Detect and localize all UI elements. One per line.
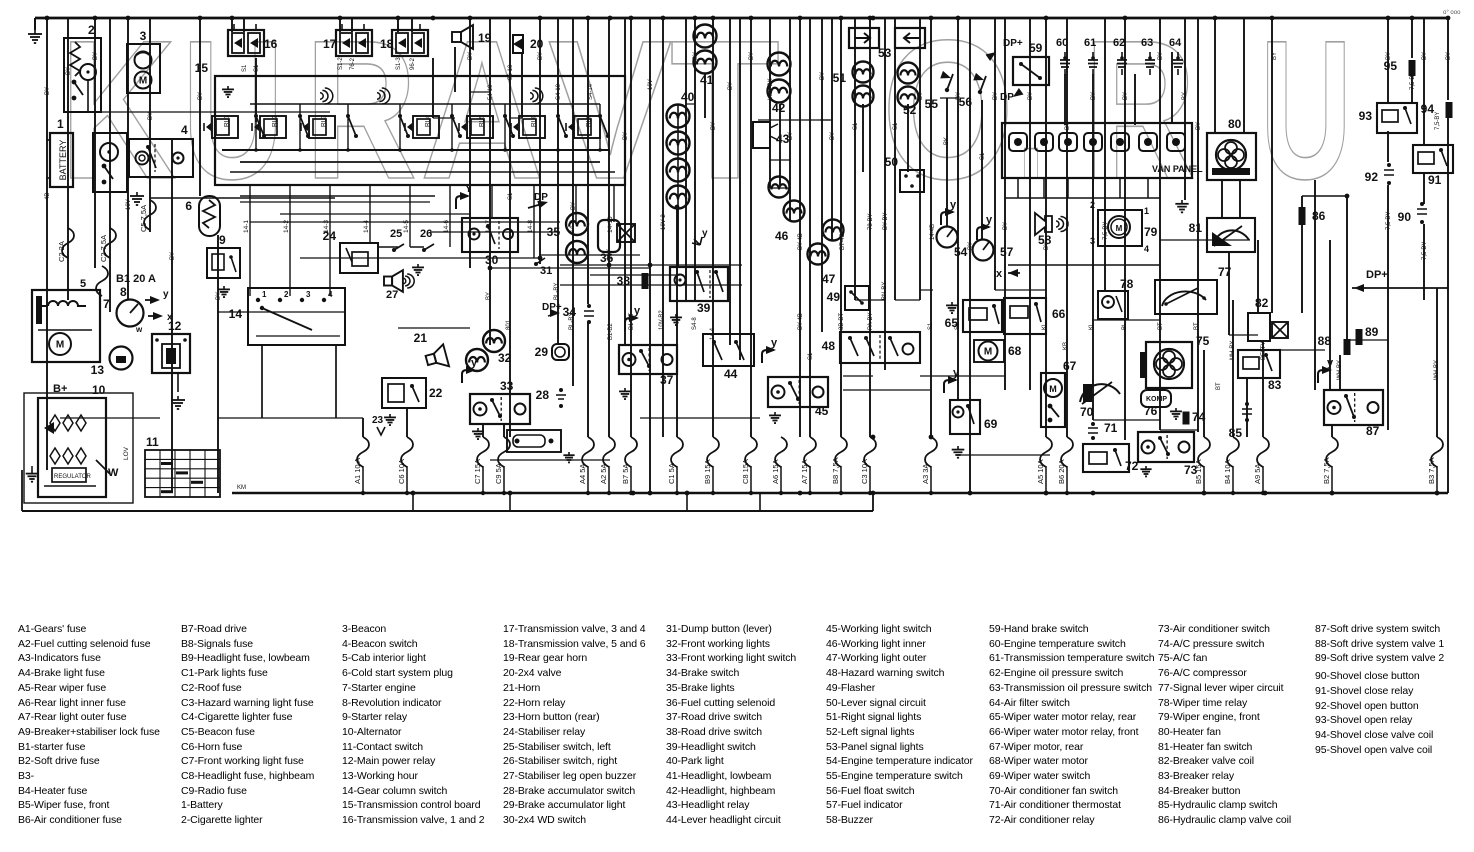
svg-text:y: y bbox=[163, 289, 169, 300]
svg-text:48: 48 bbox=[822, 339, 836, 353]
svg-text:81: 81 bbox=[1189, 221, 1203, 235]
svg-text:C7 15A: C7 15A bbox=[473, 459, 482, 484]
svg-text:B1-BT: B1-BT bbox=[629, 313, 635, 330]
DP+ right bbox=[1354, 269, 1388, 292]
beacon unit 3 bbox=[127, 29, 160, 93]
fuel indicator 57 bbox=[973, 214, 1014, 261]
2x4 WD switch 30 bbox=[456, 183, 518, 267]
svg-text:77: 77 bbox=[1218, 265, 1232, 279]
front working lights 32 bbox=[466, 330, 512, 371]
svg-text:37: 37 bbox=[660, 373, 674, 387]
svg-text:23: 23 bbox=[372, 415, 384, 426]
svg-text:BY: BY bbox=[1028, 92, 1034, 100]
svg-text:6: 6 bbox=[185, 199, 192, 213]
svg-text:M: M bbox=[1049, 384, 1057, 394]
top supply bus bbox=[35, 17, 1448, 20]
svg-text:C9 5A: C9 5A bbox=[494, 463, 503, 484]
headlight highbeam 42 bbox=[768, 53, 791, 116]
svg-text:DP+: DP+ bbox=[1366, 269, 1388, 281]
svg-text:10V: 10V bbox=[126, 199, 132, 210]
svg-text:BT: BT bbox=[1194, 322, 1200, 330]
van panel bbox=[1002, 123, 1203, 198]
svg-text:BY: BY bbox=[956, 92, 962, 100]
svg-text:V: V bbox=[548, 0, 672, 220]
svg-text:BY: BY bbox=[148, 112, 154, 120]
svg-text:7,5-BY: 7,5-BY bbox=[1422, 242, 1428, 260]
shovel open button 92 bbox=[1365, 163, 1394, 185]
air conditioner fan switch 70 bbox=[1080, 382, 1120, 419]
bottom bus 2 bbox=[22, 470, 873, 511]
svg-text:BY: BY bbox=[45, 87, 51, 95]
svg-text:BY: BY bbox=[693, 52, 699, 60]
starter relay 9 bbox=[207, 233, 240, 297]
svg-text:14-4B: 14-4B bbox=[930, 224, 936, 240]
svg-text:S1: S1 bbox=[893, 122, 899, 130]
svg-text:REGULATOR: REGULATOR bbox=[54, 474, 91, 480]
fuel cutting selenoid 36 bbox=[598, 220, 635, 265]
fuse C2 2A bbox=[57, 228, 74, 262]
signal lever wiper circuit 77 bbox=[1155, 265, 1232, 314]
svg-text:10V: 10V bbox=[607, 249, 613, 260]
svg-text:B5 15A: B5 15A bbox=[1194, 459, 1203, 484]
svg-text:92: 92 bbox=[1365, 170, 1379, 184]
svg-text:C5 7,5A: C5 7,5A bbox=[139, 205, 148, 232]
contact unit with lamp bbox=[93, 133, 127, 192]
main power relay 12 bbox=[152, 319, 190, 373]
svg-text:B9 15A: B9 15A bbox=[703, 459, 712, 484]
corner marks bbox=[1443, 10, 1461, 16]
svg-text:RL2: RL2 bbox=[272, 115, 279, 127]
svg-text:16: 16 bbox=[264, 37, 278, 51]
y arrow near 39 bbox=[692, 228, 708, 245]
road drive switch 37 bbox=[619, 345, 677, 399]
svg-text:64: 64 bbox=[1169, 37, 1182, 49]
svg-text:KL: KL bbox=[1089, 322, 1095, 330]
svg-text:33: 33 bbox=[500, 379, 514, 393]
horn 21 bbox=[414, 331, 449, 371]
svg-text:BY: BY bbox=[66, 67, 72, 75]
ground under 4 bbox=[130, 192, 144, 205]
svg-text:71: 71 bbox=[1104, 421, 1118, 435]
svg-text:3: 3 bbox=[1090, 236, 1095, 246]
road drive switch 38 bbox=[617, 273, 649, 289]
headlight relay 43 bbox=[753, 122, 790, 148]
svg-text:38: 38 bbox=[617, 274, 631, 288]
svg-text:MH-BY: MH-BY bbox=[1230, 341, 1236, 360]
svg-text:BATTERY: BATTERY bbox=[58, 140, 68, 181]
svg-text:C1 5A: C1 5A bbox=[667, 463, 676, 484]
svg-text:BL-BY: BL-BY bbox=[554, 283, 560, 300]
svg-text:B1 20 A: B1 20 A bbox=[116, 273, 156, 285]
svg-text:BY: BY bbox=[1044, 242, 1050, 250]
brake switch 34 bbox=[563, 304, 594, 324]
watermark KURAVTO.RU bbox=[60, 0, 1352, 220]
svg-text:A3 3A: A3 3A bbox=[921, 464, 930, 484]
svg-text:BY: BY bbox=[1091, 92, 1097, 100]
rear gear horn 19 bbox=[452, 25, 492, 49]
svg-text:17: 17 bbox=[323, 37, 337, 51]
svg-text:90: 90 bbox=[1398, 210, 1412, 224]
breaker valve coil 82 bbox=[1248, 296, 1288, 341]
svg-text:96-10: 96-10 bbox=[508, 64, 514, 80]
DP arrow mid2 bbox=[528, 192, 549, 208]
stabiliser relay 24 bbox=[323, 229, 424, 273]
svg-text:BY: BY bbox=[216, 292, 222, 300]
wiper water motor relay front 66 bbox=[1004, 298, 1066, 334]
svg-text:1: 1 bbox=[57, 117, 64, 131]
svg-text:S1: S1 bbox=[242, 64, 248, 72]
wiper water switch 69 bbox=[944, 367, 998, 458]
svg-text:BY: BY bbox=[1446, 52, 1452, 60]
svg-text:LOV: LOV bbox=[123, 446, 130, 460]
svg-text:WH-BY: WH-BY bbox=[1337, 360, 1343, 380]
svg-text:o° ooo: o° ooo bbox=[1443, 10, 1461, 16]
svg-text:BY: BY bbox=[198, 92, 204, 100]
svg-text:14-2: 14-2 bbox=[283, 220, 290, 233]
svg-text:4: 4 bbox=[1144, 244, 1149, 254]
svg-text:C2 2A: C2 2A bbox=[57, 241, 66, 262]
svg-text:10: 10 bbox=[92, 383, 106, 397]
svg-text:S4-10: S4-10 bbox=[556, 83, 562, 100]
ground under 12 bbox=[171, 396, 185, 409]
transmission valve 16 bbox=[228, 24, 278, 56]
board 15 drop wires bbox=[243, 185, 614, 296]
svg-text:S4-14: S4-14 bbox=[588, 83, 594, 100]
svg-text:31: 31 bbox=[540, 265, 552, 277]
transmission valve 18 bbox=[380, 24, 428, 56]
svg-text:y: y bbox=[702, 228, 708, 239]
svg-text:26: 26 bbox=[420, 228, 432, 240]
svg-text:C8 15A: C8 15A bbox=[741, 459, 750, 484]
svg-text:27: 27 bbox=[386, 289, 398, 301]
svg-text:75: 75 bbox=[1196, 334, 1210, 348]
svg-text:BY: BY bbox=[728, 82, 734, 90]
svg-text:44: 44 bbox=[724, 367, 738, 381]
svg-text:76-2: 76-2 bbox=[350, 57, 356, 70]
svg-text:83: 83 bbox=[1268, 378, 1282, 392]
svg-text:KL: KL bbox=[1042, 322, 1048, 330]
wire verticals bbox=[47, 18, 1448, 493]
svg-text:BY: BY bbox=[711, 122, 717, 130]
flasher 49 bbox=[827, 286, 869, 310]
svg-text:BN-BY: BN-BY bbox=[882, 282, 888, 300]
svg-text:78-BY: 78-BY bbox=[868, 213, 874, 230]
lever signal circuit 50 bbox=[885, 155, 924, 192]
shovel close relay 91 bbox=[1413, 145, 1453, 187]
svg-text:47: 47 bbox=[822, 272, 836, 286]
svg-text:RL4: RL4 bbox=[425, 115, 432, 127]
svg-text:BY: BY bbox=[170, 252, 176, 260]
svg-text:68: 68 bbox=[1008, 344, 1022, 358]
air conditioner thermostat 71 bbox=[1088, 421, 1118, 440]
svg-text:BT: BT bbox=[1216, 382, 1222, 390]
svg-text:14-6: 14-6 bbox=[443, 220, 450, 233]
svg-text:59: 59 bbox=[1029, 41, 1043, 55]
svg-text:BY: BY bbox=[468, 52, 474, 60]
svg-text:BY: BY bbox=[1065, 122, 1071, 130]
svg-text:A7 15A: A7 15A bbox=[800, 459, 809, 484]
ground top-left bbox=[28, 30, 42, 43]
svg-text:20: 20 bbox=[530, 37, 544, 51]
svg-text:BY: BY bbox=[538, 52, 544, 60]
svg-text:BY: BY bbox=[830, 132, 836, 140]
shovel open relay 93 bbox=[1359, 103, 1417, 133]
svg-text:BY: BY bbox=[1123, 92, 1129, 100]
svg-text:60: 60 bbox=[1056, 37, 1068, 49]
svg-text:29: 29 bbox=[535, 345, 549, 359]
starter engine 7 bbox=[32, 278, 110, 362]
svg-text:BY: BY bbox=[820, 72, 826, 80]
cold start plug 6 bbox=[185, 196, 220, 236]
svg-text:88: 88 bbox=[1318, 334, 1332, 348]
svg-text:C6 10A: C6 10A bbox=[397, 459, 406, 484]
hand brake switch 59 bbox=[986, 38, 1049, 103]
fuel float switch 56 bbox=[959, 73, 986, 109]
svg-text:39: 39 bbox=[697, 301, 711, 315]
svg-text:8: 8 bbox=[120, 285, 127, 299]
svg-text:BY: BY bbox=[1386, 52, 1392, 60]
wiper water motor relay rear 65 bbox=[945, 300, 1002, 332]
AC conditioner switch 73 bbox=[1138, 432, 1198, 477]
svg-text:S1: S1 bbox=[808, 352, 814, 360]
battery 1 bbox=[47, 117, 73, 187]
svg-text:14-4: 14-4 bbox=[710, 327, 716, 340]
svg-text:M: M bbox=[139, 76, 147, 87]
svg-text:BT: BT bbox=[1158, 322, 1164, 330]
svg-text:79: 79 bbox=[1144, 225, 1158, 239]
2x4 WD connector bbox=[507, 430, 575, 462]
svg-text:41: 41 bbox=[700, 73, 714, 87]
svg-text:30: 30 bbox=[485, 253, 499, 267]
svg-text:19: 19 bbox=[478, 31, 492, 45]
svg-text:y: y bbox=[1327, 357, 1334, 369]
wire horizontals bbox=[60, 92, 1448, 460]
svg-text:.: . bbox=[1018, 0, 1044, 220]
svg-text:M: M bbox=[56, 340, 64, 351]
lever headlight circuit 44 bbox=[703, 334, 754, 381]
svg-text:70: 70 bbox=[1080, 405, 1094, 419]
svg-text:y: y bbox=[771, 337, 778, 349]
svg-text:14: 14 bbox=[229, 307, 243, 321]
svg-text:76: 76 bbox=[1144, 404, 1158, 418]
svg-text:BY: BY bbox=[918, 92, 924, 100]
svg-text:M: M bbox=[984, 347, 992, 358]
breaker relay 83 bbox=[1238, 350, 1282, 392]
svg-text:RL5: RL5 bbox=[479, 115, 486, 127]
breaker button 85 bbox=[1229, 402, 1252, 440]
svg-text:B2 7,5A: B2 7,5A bbox=[1322, 457, 1331, 484]
hazard warning switch 48 bbox=[822, 332, 920, 363]
hydraulic clamp valve coil 86 bbox=[1299, 207, 1326, 225]
wiper time relay 78 bbox=[1098, 277, 1134, 319]
svg-text:7,5-BY: 7,5-BY bbox=[1410, 72, 1416, 90]
svg-text:K: K bbox=[60, 0, 176, 220]
svg-text:22: 22 bbox=[429, 386, 443, 400]
svg-text:A2 5A: A2 5A bbox=[599, 464, 608, 484]
revolution indicator 8 bbox=[117, 285, 174, 334]
resistor-lamp unit 2 bbox=[64, 23, 101, 112]
svg-text:BY: BY bbox=[1158, 52, 1164, 60]
svg-text:10V-B2: 10V-B2 bbox=[659, 310, 665, 330]
svg-text:54: 54 bbox=[954, 245, 968, 259]
svg-text:7,5-BY: 7,5-BY bbox=[1386, 212, 1392, 230]
svg-text:69: 69 bbox=[984, 417, 998, 431]
svg-text:94: 94 bbox=[1421, 102, 1435, 116]
svg-text:2: 2 bbox=[88, 23, 95, 37]
svg-text:S1-2: S1-2 bbox=[338, 57, 344, 70]
svg-text:B3 7,5A: B3 7,5A bbox=[1427, 457, 1436, 484]
svg-text:7,5-BY: 7,5-BY bbox=[1435, 112, 1441, 130]
svg-text:U: U bbox=[1260, 0, 1352, 220]
brake lights 35 bbox=[547, 213, 588, 263]
brake accumulator switch 28 bbox=[536, 388, 566, 408]
box14 drops bbox=[178, 345, 336, 418]
ground right of van panel bbox=[1175, 200, 1188, 212]
svg-text:y: y bbox=[634, 305, 641, 317]
svg-text:B1-B2: B1-B2 bbox=[608, 323, 614, 340]
svg-text:51: 51 bbox=[833, 71, 847, 85]
svg-text:x: x bbox=[996, 268, 1003, 280]
svg-text:53: 53 bbox=[878, 46, 892, 60]
contact switch table 11 bbox=[145, 435, 220, 497]
svg-text:1: 1 bbox=[1144, 206, 1149, 216]
svg-text:BL-BY: BL-BY bbox=[569, 313, 575, 330]
svg-text:WH-BY: WH-BY bbox=[1434, 360, 1440, 380]
svg-text:y: y bbox=[953, 367, 960, 379]
svg-text:21: 21 bbox=[414, 331, 428, 345]
svg-text:93: 93 bbox=[1359, 109, 1373, 123]
working hour 13 bbox=[91, 347, 133, 378]
svg-text:BT-4B: BT-4B bbox=[840, 233, 846, 250]
svg-text:LOV-BK: LOV-BK bbox=[768, 78, 774, 100]
svg-text:91: 91 bbox=[1428, 173, 1442, 187]
headlight switch 39 bbox=[670, 267, 728, 325]
svg-text:7: 7 bbox=[103, 297, 110, 311]
park light 40 bbox=[667, 90, 695, 209]
svg-text:57: 57 bbox=[1000, 245, 1014, 259]
stabiliser switch left 25 bbox=[390, 228, 404, 252]
svg-text:801: 801 bbox=[506, 319, 512, 330]
svg-text:12: 12 bbox=[168, 319, 182, 333]
svg-text:DP: DP bbox=[1000, 92, 1014, 103]
y arrow near 37 bbox=[625, 305, 641, 331]
svg-text:3B-BT: 3B-BT bbox=[839, 313, 845, 330]
ground under 22 bbox=[384, 414, 396, 425]
svg-text:3: 3 bbox=[306, 290, 311, 299]
working light outer label 47 bbox=[822, 272, 836, 286]
legend bbox=[18, 622, 160, 828]
shovel close button 90 bbox=[1398, 202, 1427, 224]
transmission valve 17 bbox=[323, 24, 372, 56]
alternator 10 bbox=[38, 383, 119, 497]
svg-text:82: 82 bbox=[1255, 296, 1269, 310]
svg-text:9: 9 bbox=[219, 233, 226, 247]
svg-text:25: 25 bbox=[390, 228, 402, 240]
working light inner 46 bbox=[769, 177, 805, 244]
heater fan switch 81 bbox=[1189, 218, 1255, 252]
svg-text:A6 15A: A6 15A bbox=[771, 459, 780, 484]
svg-text:61: 61 bbox=[1084, 37, 1096, 49]
shovel open valve coil 95 bbox=[1384, 59, 1416, 76]
svg-text:14-5: 14-5 bbox=[403, 220, 410, 233]
svg-text:S1: S1 bbox=[254, 64, 260, 72]
fuse B1 20A bbox=[96, 266, 156, 296]
svg-text:67: 67 bbox=[1063, 359, 1077, 373]
svg-text:45: 45 bbox=[815, 404, 829, 418]
svg-text:42: 42 bbox=[772, 101, 786, 115]
AC fan 75 bbox=[1140, 334, 1210, 388]
svg-text:C3 10A: C3 10A bbox=[860, 459, 869, 484]
svg-text:5: 5 bbox=[80, 278, 86, 290]
horn button 23 bbox=[372, 415, 385, 435]
heater fan 80 bbox=[1207, 117, 1256, 180]
svg-text:BY: BY bbox=[1272, 52, 1278, 60]
svg-text:BL: BL bbox=[1122, 322, 1128, 330]
svg-text:78: 78 bbox=[1120, 277, 1134, 291]
svg-text:BY: BY bbox=[788, 132, 794, 140]
svg-text:87: 87 bbox=[1366, 424, 1380, 438]
svg-text:RL1: RL1 bbox=[224, 115, 231, 127]
svg-text:10V-2: 10V-2 bbox=[661, 214, 667, 230]
svg-text:2: 2 bbox=[284, 290, 289, 299]
horn relay 22 bbox=[382, 378, 443, 408]
svg-text:BY: BY bbox=[993, 92, 999, 100]
svg-text:DP+: DP+ bbox=[1003, 38, 1023, 49]
svg-text:BY: BY bbox=[486, 292, 492, 300]
svg-text:11: 11 bbox=[146, 435, 159, 449]
svg-text:w: w bbox=[135, 325, 143, 334]
svg-text:A5 10A: A5 10A bbox=[1036, 459, 1045, 484]
svg-text:BY: BY bbox=[1422, 52, 1428, 60]
svg-text:S1: S1 bbox=[928, 322, 934, 330]
svg-text:80: 80 bbox=[1228, 117, 1242, 131]
svg-text:4: 4 bbox=[181, 123, 188, 137]
soft drive valve1 88 bbox=[1318, 334, 1351, 355]
wiper water motor 68 bbox=[974, 340, 1022, 362]
svg-text:BY: BY bbox=[968, 242, 974, 250]
svg-text:BELTY: BELTY bbox=[1261, 341, 1267, 360]
svg-text:BY: BY bbox=[1003, 222, 1009, 230]
svg-text:BK: BK bbox=[944, 137, 950, 145]
svg-text:A4 5A: A4 5A bbox=[578, 464, 587, 484]
left signal lights 52 bbox=[898, 63, 919, 118]
svg-text:54-10: 54-10 bbox=[488, 84, 494, 100]
svg-text:KOMP: KOMP bbox=[1146, 396, 1167, 403]
brake accumulator light 29 bbox=[535, 344, 569, 360]
svg-text:18: 18 bbox=[380, 37, 394, 51]
svg-text:y: y bbox=[471, 357, 478, 369]
svg-text:95: 95 bbox=[1384, 59, 1398, 73]
svg-text:35: 35 bbox=[547, 225, 561, 239]
svg-text:14-4: 14-4 bbox=[363, 220, 370, 233]
svg-text:14-1: 14-1 bbox=[243, 220, 250, 233]
svg-text:BY: BY bbox=[623, 132, 629, 140]
ground left of alternator bbox=[26, 466, 39, 482]
svg-text:A1 10 A: A1 10 A bbox=[353, 458, 362, 484]
svg-text:89: 89 bbox=[1365, 325, 1379, 339]
svg-text:y: y bbox=[950, 199, 957, 211]
bottom fuse row bbox=[353, 437, 1443, 495]
x arrow right bbox=[996, 268, 1020, 280]
svg-text:RL3: RL3 bbox=[321, 115, 328, 127]
svg-text:BY: BY bbox=[93, 52, 99, 60]
wiper engine front 79 bbox=[1090, 200, 1158, 254]
svg-text:R: R bbox=[1084, 0, 1196, 220]
transmission control board 15 bbox=[195, 61, 625, 185]
front working light switch 33 bbox=[462, 357, 530, 439]
svg-text:63: 63 bbox=[1141, 37, 1153, 49]
svg-text:49: 49 bbox=[827, 290, 841, 304]
